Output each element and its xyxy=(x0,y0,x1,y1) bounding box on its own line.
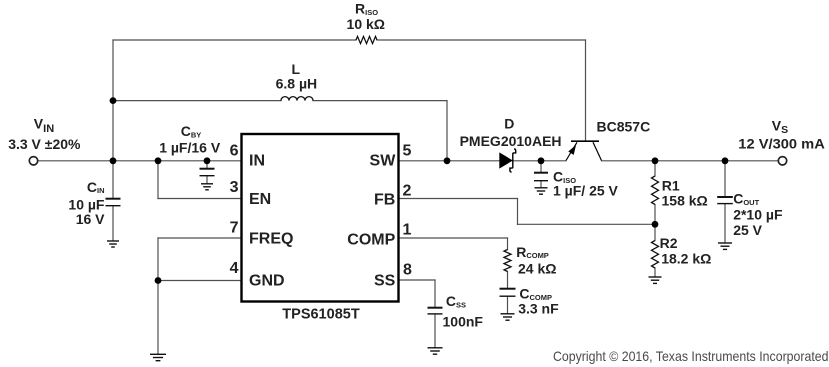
svg-text:R2: R2 xyxy=(660,235,678,251)
svg-text:8: 8 xyxy=(403,262,412,279)
svg-text:COMP: COMP xyxy=(347,232,395,249)
svg-text:EN: EN xyxy=(249,191,271,208)
svg-text:SS: SS xyxy=(374,273,396,290)
svg-text:FB: FB xyxy=(374,191,395,208)
svg-text:CCOMP: CCOMP xyxy=(519,286,552,302)
svg-text:6.8 µH: 6.8 µH xyxy=(276,75,318,91)
svg-text:2: 2 xyxy=(403,183,412,200)
svg-text:3.3 V ±20%: 3.3 V ±20% xyxy=(8,136,81,152)
svg-text:2*10 µF: 2*10 µF xyxy=(733,206,783,222)
svg-text:100nF: 100nF xyxy=(443,313,484,329)
svg-text:FREQ: FREQ xyxy=(249,231,293,248)
svg-text:3: 3 xyxy=(230,179,239,196)
svg-text:VIN: VIN xyxy=(34,116,54,136)
svg-text:CSS: CSS xyxy=(446,293,466,309)
svg-text:3.3 nF: 3.3 nF xyxy=(518,301,559,317)
svg-text:CIN: CIN xyxy=(87,179,105,195)
svg-text:1 µF/16 V: 1 µF/16 V xyxy=(159,139,221,155)
svg-text:5: 5 xyxy=(403,143,412,160)
svg-text:24 kΩ: 24 kΩ xyxy=(518,260,556,276)
svg-text:1 µF/ 25 V: 1 µF/ 25 V xyxy=(553,183,619,199)
svg-text:7: 7 xyxy=(230,220,239,237)
svg-text:10 kΩ: 10 kΩ xyxy=(347,16,385,32)
svg-text:D: D xyxy=(504,115,514,131)
svg-text:158 kΩ: 158 kΩ xyxy=(662,192,708,208)
svg-text:16 V: 16 V xyxy=(76,211,105,227)
svg-text:6: 6 xyxy=(230,143,239,160)
svg-text:CBY: CBY xyxy=(181,123,202,139)
svg-text:GND: GND xyxy=(249,273,285,290)
svg-text:12 V/300 mA: 12 V/300 mA xyxy=(738,135,825,151)
svg-text:RCOMP: RCOMP xyxy=(516,244,549,260)
svg-text:RISO: RISO xyxy=(355,1,378,17)
svg-text:COUT: COUT xyxy=(733,191,759,207)
svg-text:BC857C: BC857C xyxy=(597,119,651,135)
svg-text:SW: SW xyxy=(370,153,397,170)
svg-text:R1: R1 xyxy=(662,178,680,194)
svg-text:PMEG2010AEH: PMEG2010AEH xyxy=(460,133,562,149)
svg-text:18.2 kΩ: 18.2 kΩ xyxy=(661,251,711,267)
svg-text:Copyright © 2016, Texas Instru: Copyright © 2016, Texas Instruments Inco… xyxy=(553,348,829,364)
svg-text:VS: VS xyxy=(772,118,788,136)
svg-text:4: 4 xyxy=(230,260,239,277)
svg-text:TPS61085T: TPS61085T xyxy=(282,307,360,323)
svg-text:25 V: 25 V xyxy=(733,222,762,238)
svg-text:IN: IN xyxy=(249,153,265,170)
svg-text:1: 1 xyxy=(403,222,412,239)
